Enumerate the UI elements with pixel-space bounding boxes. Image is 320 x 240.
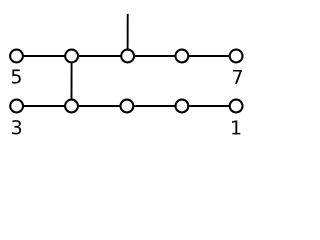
label 3 — [12, 120, 21, 134]
label 7 — [233, 70, 242, 84]
node top-4 — [176, 50, 189, 63]
wire: bottom edge 1-2 — [17, 105, 72, 107]
wire: bottom edge 4-5 — [182, 105, 236, 107]
node 1 (bottom-right) — [230, 100, 243, 113]
wire: top edge 4-5 — [182, 55, 236, 57]
wire: dangling edge above top3 — [127, 14, 129, 56]
node bottom-3 — [121, 100, 134, 113]
node 7 (top-right) — [230, 50, 243, 63]
node top-3 (with dangling edge) — [121, 50, 134, 63]
node bottom-4 — [176, 100, 189, 113]
node top-2 — [65, 50, 78, 63]
label 5 — [12, 70, 21, 84]
wire: top edge 1-2 — [17, 55, 72, 57]
label 1 — [232, 121, 240, 135]
node bottom-2 — [65, 100, 78, 113]
wire: bottom edge 3-4 — [127, 105, 182, 107]
node 5 (top-left) — [10, 50, 23, 63]
wire: top edge 3-4 — [128, 55, 182, 57]
wire: bottom edge 2-3 — [72, 105, 127, 107]
wire: top edge 2-3 — [72, 55, 128, 57]
node 3 (bottom-left) — [10, 100, 23, 113]
wire: vertical edge top2-bottom2 — [71, 56, 73, 106]
